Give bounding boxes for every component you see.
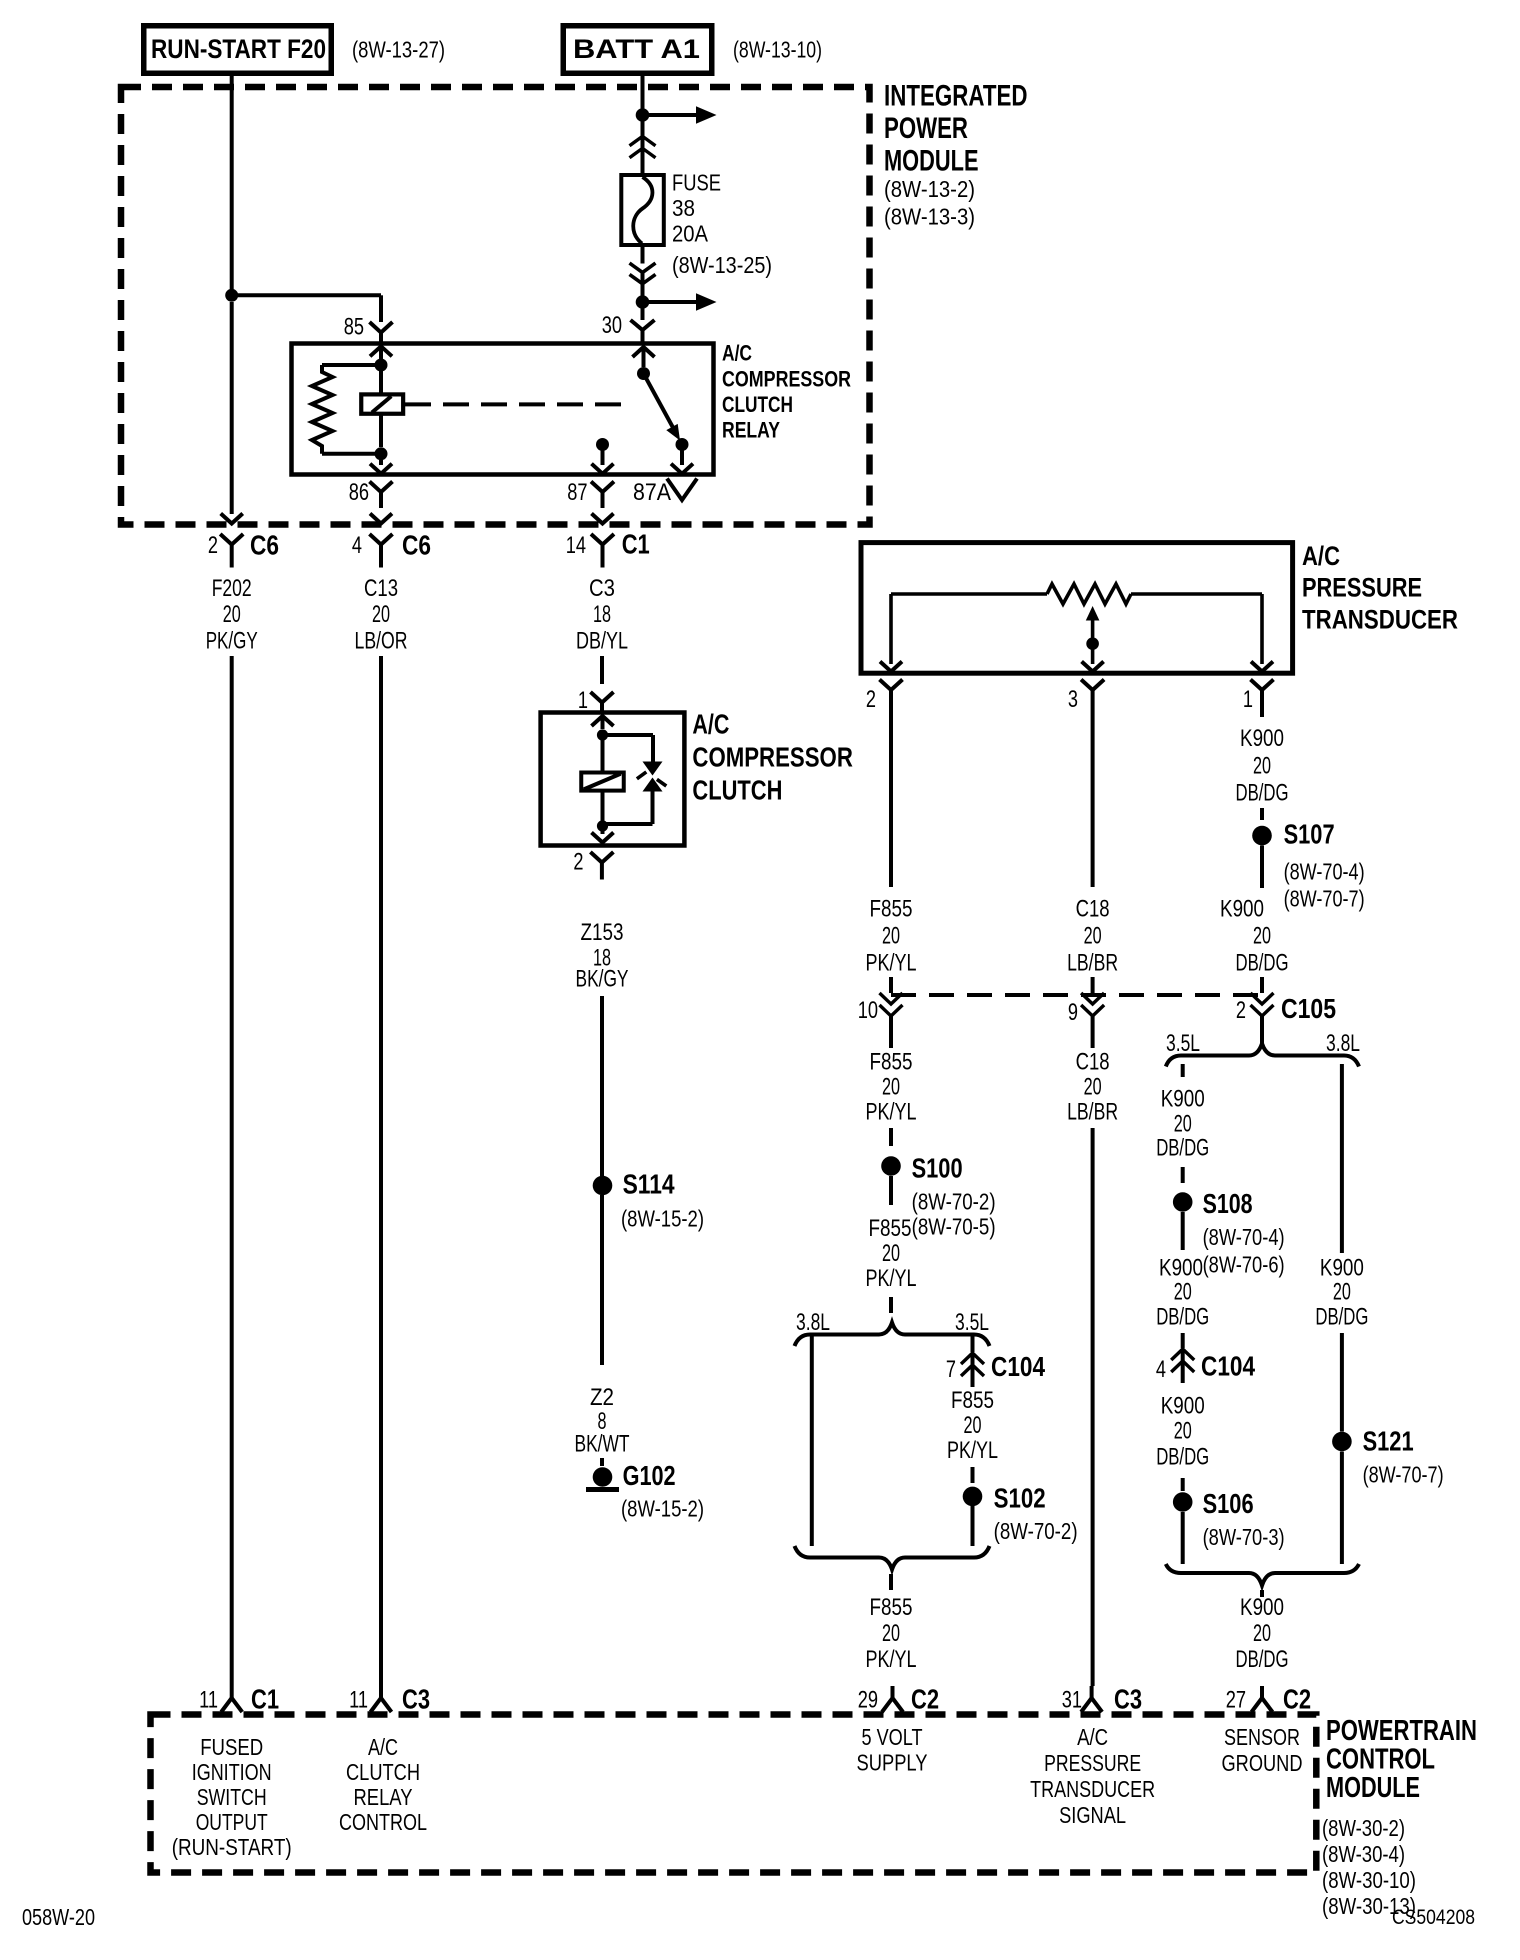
svg-text:20: 20 [372, 601, 390, 628]
svg-text:5 VOLT: 5 VOLT [862, 1724, 923, 1750]
wire from BATT A1 into IPM [641, 76, 645, 109]
wire stub below merge [889, 1574, 893, 1590]
splice S108 [1173, 1192, 1193, 1212]
svg-text:DB/DG: DB/DG [1236, 950, 1289, 977]
relay pin 87A contact node [676, 438, 689, 451]
svg-text:F855: F855 [870, 896, 913, 923]
svg-text:SUPPLY: SUPPLY [857, 1750, 928, 1776]
wire stub to engine split [889, 1297, 893, 1313]
wire branch to relay pin 85 [232, 293, 381, 297]
svg-text:86: 86 [349, 479, 369, 506]
arrowhead at relay box edge pin 87 [592, 464, 614, 474]
inline connector C105 dashed line [891, 993, 1262, 997]
svg-text:PK/YL: PK/YL [866, 1265, 917, 1292]
svg-text:20: 20 [1333, 1279, 1351, 1306]
junction node battery feed [636, 108, 650, 122]
svg-text:CLUTCH: CLUTCH [692, 775, 782, 806]
svg-text:C104: C104 [991, 1351, 1045, 1382]
svg-text:TRANSDUCER: TRANSDUCER [1302, 605, 1458, 635]
connector C6 pin 4 [370, 534, 393, 545]
integrated power module dashed box [121, 87, 870, 525]
arrowhead into clutch pin 1 [592, 716, 614, 726]
svg-text:(8W-70-3): (8W-70-3) [1203, 1524, 1285, 1550]
clutch bottom node [597, 820, 608, 831]
svg-text:S102: S102 [994, 1483, 1046, 1514]
arrowhead at IPM border col3 [592, 514, 614, 524]
feed box RUN-START F20 [144, 26, 332, 74]
connector C1 pin 14 [591, 534, 614, 545]
svg-text:C18: C18 [1076, 1049, 1110, 1076]
svg-text:Z2: Z2 [590, 1384, 614, 1411]
svg-text:20: 20 [1084, 923, 1102, 950]
svg-text:A/C: A/C [1077, 1724, 1108, 1750]
svg-text:(8W-13-25): (8W-13-25) [672, 252, 772, 278]
svg-text:4: 4 [352, 532, 362, 559]
svg-text:C3: C3 [402, 1684, 430, 1715]
wire coil to relay pin 86 [379, 460, 383, 465]
relay resistor [322, 363, 381, 367]
wire 3.8L branch (5V) [810, 1336, 814, 1546]
svg-text:F855: F855 [869, 1215, 912, 1242]
wire pin 87 to box edge [601, 445, 605, 466]
svg-text:SIGNAL: SIGNAL [1059, 1802, 1126, 1828]
svg-text:CLUTCH: CLUTCH [346, 1759, 420, 1785]
svg-text:RELAY: RELAY [354, 1784, 413, 1810]
svg-text:K900: K900 [1320, 1255, 1364, 1282]
svg-text:C104: C104 [1201, 1351, 1255, 1382]
svg-text:20: 20 [964, 1412, 982, 1439]
svg-text:K900: K900 [1240, 725, 1284, 752]
svg-text:C6: C6 [402, 530, 431, 561]
clutch coil [601, 735, 605, 773]
svg-text:G102: G102 [623, 1460, 676, 1491]
engine split brace upper (5V) [795, 1323, 990, 1347]
svg-text:S108: S108 [1203, 1188, 1253, 1219]
wire C18 to C105 [1091, 710, 1095, 887]
svg-text:20: 20 [1253, 1620, 1271, 1647]
svg-text:C3: C3 [1114, 1684, 1142, 1715]
svg-text:C1: C1 [251, 1684, 279, 1715]
PCM connector C2 pin 27 [1260, 1686, 1264, 1698]
junction node run-start branch [225, 289, 238, 302]
svg-text:GROUND: GROUND [1222, 1750, 1303, 1776]
wire pin 87A to box edge [680, 445, 684, 466]
wire below S108 [1181, 1212, 1185, 1250]
svg-text:20: 20 [1174, 1418, 1192, 1445]
svg-text:A/C: A/C [1302, 541, 1340, 571]
svg-text:CONTROL: CONTROL [1326, 1744, 1435, 1776]
ground G102 [593, 1467, 613, 1487]
svg-text:C2: C2 [1283, 1684, 1311, 1715]
transducer wiper node [1086, 637, 1099, 650]
svg-text:PK/YL: PK/YL [866, 1099, 917, 1126]
relay coil bottom node [375, 447, 388, 460]
svg-text:9: 9 [1068, 999, 1078, 1026]
wire stub below merge (ground) [1260, 1590, 1264, 1597]
svg-text:38: 38 [672, 195, 695, 221]
wire S114 to ground [600, 1195, 604, 1365]
transducer pin 3 internal wire [1091, 644, 1095, 664]
PCM connector C1 pin 11 [230, 1686, 234, 1698]
relay coil top node [375, 359, 388, 372]
svg-text:LB/BR: LB/BR [1067, 950, 1118, 977]
svg-text:A/C: A/C [722, 341, 752, 366]
svg-text:S100: S100 [912, 1153, 963, 1184]
powertrain control module dashed box [151, 1715, 1317, 1873]
svg-text:14: 14 [566, 532, 586, 559]
svg-text:(8W-70-7): (8W-70-7) [1284, 886, 1365, 912]
splice S102 [963, 1487, 983, 1507]
splice S106 [1173, 1492, 1193, 1512]
svg-text:A/C: A/C [692, 709, 729, 740]
svg-text:K900: K900 [1240, 1594, 1284, 1621]
wire K900 from transducer pin 1 [1260, 710, 1264, 717]
svg-text:FUSE: FUSE [672, 170, 721, 196]
wire F202 20 PK/GY [230, 656, 234, 1686]
svg-text:(8W-13-2): (8W-13-2) [884, 176, 975, 202]
svg-text:IGNITION: IGNITION [192, 1759, 272, 1785]
svg-text:2: 2 [866, 686, 876, 713]
A/C pressure transducer box [861, 543, 1293, 674]
svg-text:C13: C13 [364, 575, 398, 602]
svg-text:C2: C2 [911, 1684, 939, 1715]
svg-text:10: 10 [858, 997, 878, 1024]
wire C18 label b [1091, 1035, 1095, 1048]
svg-text:S121: S121 [1363, 1426, 1414, 1457]
svg-text:TRANSDUCER: TRANSDUCER [1030, 1776, 1155, 1802]
svg-text:(8W-30-2): (8W-30-2) [1322, 1815, 1405, 1841]
svg-text:29: 29 [858, 1687, 878, 1714]
arrowhead at clutch box edge pin 2 [601, 826, 605, 834]
svg-text:COMPRESSOR: COMPRESSOR [722, 366, 851, 391]
svg-text:11: 11 [199, 1687, 218, 1714]
svg-text:(8W-13-27): (8W-13-27) [352, 37, 445, 63]
wire stub to ground [600, 1458, 604, 1466]
svg-text:PK/YL: PK/YL [866, 1646, 917, 1673]
svg-text:(8W-70-4): (8W-70-4) [1203, 1224, 1285, 1250]
svg-text:(8W-70-2): (8W-70-2) [912, 1189, 996, 1215]
svg-text:MODULE: MODULE [1326, 1772, 1420, 1804]
svg-text:2: 2 [1236, 997, 1246, 1024]
svg-text:3.8L: 3.8L [1326, 1030, 1360, 1057]
relay pin 30 contact node [637, 367, 650, 380]
svg-text:DB/DG: DB/DG [1156, 1444, 1209, 1471]
svg-text:LB/OR: LB/OR [355, 628, 408, 655]
svg-text:058W-20: 058W-20 [22, 1904, 95, 1930]
svg-text:K900: K900 [1161, 1393, 1205, 1420]
svg-text:C105: C105 [1281, 993, 1336, 1024]
arrowhead at IPM border col1 [221, 514, 243, 524]
transducer pin 1 internal wire [1260, 594, 1264, 664]
svg-text:BK/WT: BK/WT [575, 1431, 630, 1458]
svg-text:87: 87 [567, 479, 587, 506]
wire stub below split 3.5L [1181, 1064, 1185, 1077]
connector C6 pin 2 [220, 534, 243, 545]
svg-text:3.5L: 3.5L [1166, 1030, 1200, 1057]
wire run-start down to IPM border [230, 302, 234, 514]
svg-text:20: 20 [1253, 753, 1271, 780]
engine split brace upper (ground) [1260, 1028, 1264, 1045]
svg-text:3.5L: 3.5L [955, 1309, 989, 1336]
wire 3.8L branch to S121 [1340, 1333, 1344, 1432]
svg-text:20: 20 [882, 1074, 900, 1101]
wire below S100 [889, 1176, 893, 1205]
svg-text:(8W-15-2): (8W-15-2) [621, 1206, 704, 1232]
svg-text:K900: K900 [1159, 1255, 1203, 1282]
svg-text:DB/DG: DB/DG [1236, 1646, 1289, 1673]
svg-text:PRESSURE: PRESSURE [1044, 1750, 1141, 1776]
svg-text:F855: F855 [870, 1594, 913, 1621]
svg-text:20: 20 [882, 1620, 900, 1647]
transducer pin 2 internal wire [889, 594, 893, 664]
PCM connector C2 pin 29 [891, 1686, 895, 1698]
svg-text:F202: F202 [212, 575, 252, 602]
splice S100 [881, 1156, 901, 1176]
svg-text:(8W-15-2): (8W-15-2) [621, 1496, 704, 1522]
svg-text:20A: 20A [672, 221, 709, 247]
svg-text:DB/DG: DB/DG [1315, 1304, 1368, 1331]
wire F855 to C105 [889, 710, 893, 887]
svg-text:11: 11 [349, 1687, 368, 1714]
svg-text:4: 4 [1156, 1356, 1166, 1383]
svg-text:C18: C18 [1076, 896, 1110, 923]
svg-text:C6: C6 [250, 530, 279, 561]
wire C3 18 DB/YL [600, 656, 604, 684]
fuse holder chevrons upper [641, 122, 645, 137]
svg-text:31: 31 [1062, 1687, 1082, 1714]
svg-text:1: 1 [1243, 686, 1253, 713]
svg-text:18: 18 [593, 601, 611, 628]
arrowhead into relay pin 30 [633, 347, 655, 357]
clutch top node [597, 729, 608, 740]
svg-text:PK/YL: PK/YL [947, 1437, 998, 1464]
relay pin 87 contact node [596, 438, 609, 451]
svg-text:20: 20 [223, 601, 241, 628]
wire below S107 [1260, 846, 1264, 889]
svg-text:27: 27 [1226, 1687, 1246, 1714]
svg-text:(RUN-START): (RUN-START) [172, 1834, 292, 1860]
svg-text:INTEGRATED: INTEGRATED [884, 80, 1028, 113]
wire stub to S108 [1181, 1167, 1185, 1183]
svg-text:DB/DG: DB/DG [1156, 1304, 1209, 1331]
svg-text:POWERTRAIN: POWERTRAIN [1326, 1715, 1477, 1747]
svg-text:20: 20 [1174, 1111, 1192, 1138]
wire below S106 [1181, 1512, 1185, 1564]
engine merge brace lower (5V) [795, 1546, 990, 1570]
svg-text:20: 20 [1084, 1074, 1102, 1101]
arrowhead into relay pin 85 [370, 346, 392, 356]
svg-text:30: 30 [602, 312, 622, 339]
svg-text:LB/BR: LB/BR [1067, 1099, 1118, 1126]
svg-text:20: 20 [882, 923, 900, 950]
wire 3.8L branch upper [1340, 1064, 1344, 1253]
arrowhead at relay box edge pin 86 [370, 464, 392, 474]
svg-text:K900: K900 [1220, 896, 1264, 923]
svg-text:RELAY: RELAY [722, 417, 780, 442]
arrow feed to other circuits top [648, 113, 697, 117]
svg-text:BATT A1: BATT A1 [573, 34, 700, 64]
A/C compressor clutch relay box [292, 344, 714, 475]
svg-text:COMPRESSOR: COMPRESSOR [692, 742, 853, 773]
svg-text:FUSED: FUSED [200, 1734, 263, 1760]
svg-text:(8W-30-4): (8W-30-4) [1322, 1841, 1405, 1867]
svg-text:PRESSURE: PRESSURE [1302, 573, 1422, 603]
wire from RUN-START F20 into IPM [230, 76, 234, 289]
svg-text:(8W-70-4): (8W-70-4) [1284, 859, 1365, 885]
svg-text:S114: S114 [623, 1169, 675, 1200]
svg-text:CONTROL: CONTROL [339, 1809, 427, 1835]
wire C13 20 LB/OR [379, 656, 383, 1686]
svg-text:BK/GY: BK/GY [576, 966, 629, 993]
svg-text:S106: S106 [1203, 1488, 1254, 1519]
relay switch blade [644, 374, 674, 429]
svg-text:(8W-70-5): (8W-70-5) [912, 1214, 996, 1240]
A/C compressor clutch box [541, 713, 685, 846]
svg-text:CS504208: CS504208 [1392, 1906, 1475, 1929]
clutch suppression diode branch [603, 733, 654, 737]
fuse 38 20A [621, 175, 664, 245]
svg-text:2: 2 [573, 849, 583, 876]
svg-text:3.8L: 3.8L [796, 1309, 830, 1336]
wire below S102 [971, 1506, 975, 1546]
feed box BATT A1 [563, 26, 712, 74]
relay coil [379, 365, 383, 394]
svg-text:PK/GY: PK/GY [206, 628, 258, 655]
relay pin 30 connector [641, 308, 645, 320]
svg-text:F855: F855 [870, 1049, 913, 1076]
svg-text:(8W-13-3): (8W-13-3) [884, 204, 975, 230]
fuse holder chevrons lower [641, 245, 645, 264]
wire below S121 [1340, 1452, 1344, 1565]
svg-text:(8W-70-7): (8W-70-7) [1363, 1462, 1444, 1488]
wire F855 label b [889, 1035, 893, 1048]
svg-text:SENSOR: SENSOR [1224, 1724, 1300, 1750]
svg-text:CLUTCH: CLUTCH [722, 392, 793, 417]
arrowhead at IPM border col2 [370, 514, 392, 524]
wire stub to S107 [1260, 808, 1264, 820]
junction node fused feed [636, 295, 650, 309]
svg-text:7: 7 [946, 1356, 956, 1383]
engine merge brace lower (ground) [1166, 1564, 1359, 1586]
svg-text:2: 2 [208, 532, 218, 559]
PCM connector C3 pin 11 [379, 1686, 383, 1698]
transducer potentiometer resistor [891, 592, 1047, 596]
svg-text:(8W-70-6): (8W-70-6) [1203, 1252, 1285, 1278]
arrowhead at relay box edge pin 87A [671, 464, 693, 474]
svg-text:K900: K900 [1161, 1086, 1205, 1113]
svg-text:(8W-30-10): (8W-30-10) [1322, 1867, 1416, 1893]
svg-text:A/C: A/C [368, 1734, 398, 1760]
svg-text:87A: 87A [633, 479, 671, 506]
wire Z153 18 BK/GY [600, 996, 604, 1176]
svg-text:DB/DG: DB/DG [1156, 1135, 1209, 1162]
PCM connector C3 pin 31 [1090, 1686, 1094, 1698]
svg-text:MODULE: MODULE [884, 145, 979, 178]
svg-text:C3: C3 [589, 575, 615, 602]
wire stub to S102 [971, 1467, 975, 1483]
svg-text:F855: F855 [951, 1387, 994, 1414]
svg-text:SWITCH: SWITCH [197, 1784, 267, 1810]
svg-text:3: 3 [1068, 686, 1078, 713]
relay switch dashed actuator link [405, 402, 633, 406]
svg-text:RUN-START F20: RUN-START F20 [151, 34, 326, 64]
svg-text:20: 20 [1253, 923, 1271, 950]
svg-text:S107: S107 [1284, 819, 1335, 850]
splice S121 [1332, 1432, 1352, 1452]
svg-text:20: 20 [1174, 1279, 1192, 1306]
wire stub to S106 [1181, 1478, 1185, 1491]
svg-text:(8W-70-2): (8W-70-2) [994, 1518, 1078, 1544]
wire stub to S100 [889, 1128, 893, 1146]
wire 3.5L branch stub [971, 1336, 975, 1352]
splice S107 [1252, 826, 1272, 846]
svg-text:Z153: Z153 [581, 919, 624, 946]
svg-text:OUTPUT: OUTPUT [196, 1809, 268, 1835]
wire stub to C104 pin 4 [1181, 1333, 1185, 1348]
svg-text:85: 85 [344, 314, 364, 341]
svg-text:C1: C1 [622, 529, 650, 560]
svg-text:DB/DG: DB/DG [1236, 780, 1289, 807]
svg-text:(8W-13-10): (8W-13-10) [733, 37, 822, 63]
arrow feed to other circuits lower [648, 300, 697, 304]
splice S114 [593, 1176, 613, 1196]
svg-text:1: 1 [578, 687, 588, 714]
svg-text:PK/YL: PK/YL [866, 950, 917, 977]
transducer wiper arrow [1086, 606, 1100, 621]
svg-text:POWER: POWER [884, 112, 968, 145]
wire C18 20 LB/BR to PCM [1091, 1128, 1095, 1686]
svg-text:DB/YL: DB/YL [576, 628, 628, 655]
svg-text:20: 20 [882, 1240, 900, 1267]
